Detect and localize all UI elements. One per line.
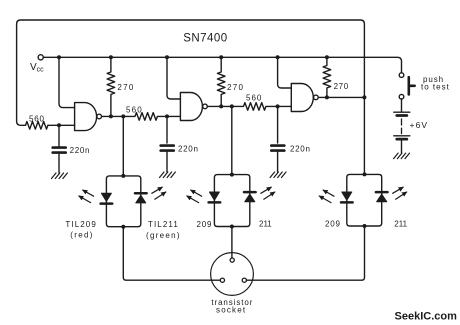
svg-text:TIL211: TIL211 (148, 220, 179, 229)
wire 560 to gate1 lower input (48, 124, 75, 126)
svg-text:(green): (green) (146, 231, 181, 240)
wire C3 to ground (277, 152, 279, 172)
light arrows pair2 left (187, 190, 202, 203)
wire gate1 output (102, 115, 124, 117)
wire gate3 lower input cap drop (277, 106, 279, 143)
node rail to R270 #1 (109, 55, 113, 59)
LED 209 pair3 left (342, 192, 352, 200)
node LED pair 2 bottom (230, 225, 234, 229)
resistor 270 R1 (107, 57, 115, 116)
node gate1 output to LED pair 1 (121, 114, 125, 118)
resistor 560 (gate1 out to gate2 in) (123, 113, 180, 121)
op-amp/NAND gate U1c (291, 84, 313, 112)
wire LED pair1 bottom to socket left pin (123, 227, 220, 281)
wire socket right pin to LED pair3 bottom (247, 226, 365, 280)
light arrows pair2 right (261, 187, 275, 199)
LED 211 pair3 right (376, 191, 388, 194)
wire gate2 lower input cap drop (166, 116, 168, 143)
wire battery to ground (401, 141, 403, 153)
svg-text:SN7400: SN7400 (183, 32, 227, 44)
op-amp/NAND gate U1b (180, 93, 202, 121)
LED TIL211 (green) pair1 right (135, 192, 147, 195)
ground C2 (160, 172, 176, 178)
svg-text:TIL209: TIL209 (65, 220, 97, 229)
svg-text:(red): (red) (70, 231, 93, 240)
svg-text:270: 270 (117, 83, 134, 92)
node R270 #3 bottom junction (325, 95, 329, 99)
wire push button to battery (401, 99, 403, 111)
light arrows pair3 right (393, 187, 407, 199)
svg-text:SeekIC.com: SeekIC.com (395, 310, 458, 322)
wire gate1 output down to LED pair 1 (122, 116, 124, 175)
node rail to gate3 upper input (276, 55, 280, 59)
resistor 270 R3 (323, 57, 331, 97)
node gate2 lower input junction (165, 114, 169, 118)
capacitor 220n C3 (271, 146, 284, 151)
push button (push to test) (399, 73, 404, 78)
light arrows pair1 left (79, 190, 94, 203)
node rail to gate2 upper input (165, 55, 169, 59)
LED pair 2 frame (214, 175, 249, 227)
wire LED pair2 bottom to socket top pin (231, 227, 233, 259)
node gate3 output feedback junction (362, 95, 366, 99)
node LED pair 1 bottom (121, 225, 125, 229)
wire gate2 upper input from rail (167, 57, 180, 99)
wire feedback loop: top border, left side, and right feedback down to LED pair 3 (17, 20, 365, 174)
node rail to gate1 upper input (57, 55, 61, 59)
svg-text:560: 560 (29, 114, 45, 123)
resistor 560 (gate2 out to gate3 in) (232, 103, 291, 111)
resistor 270 R2 (217, 57, 225, 106)
svg-text:220n: 220n (70, 146, 91, 155)
svg-text:209: 209 (325, 220, 341, 229)
ground C3 (270, 172, 286, 178)
svg-text:220n: 220n (178, 144, 199, 153)
wire C2 to ground (166, 152, 168, 172)
resistor 560 (feedback into gate 1 input) (26, 122, 48, 130)
capacitor 220n C1 (53, 148, 66, 153)
wire gate2 output down to LED pair 2 (231, 106, 233, 174)
node gate1 lower input junction (57, 123, 61, 127)
light arrows pair3 left (319, 190, 334, 203)
light arrows pair1 right (152, 187, 166, 199)
svg-text:+6V: +6V (410, 120, 429, 130)
svg-text:socket: socket (216, 305, 246, 314)
node R270 #2 bottom junction (219, 104, 223, 108)
wire gate3 output to feedback node (318, 96, 364, 98)
node gate2 output to LED pair 2 (230, 104, 234, 108)
wire gate3 upper input from rail (278, 57, 292, 88)
node LED pair 1 top (121, 174, 125, 178)
LED pair 3 frame (347, 174, 382, 226)
op-amp/NAND gate U1a (75, 103, 97, 131)
LED 209 pair2 left (209, 192, 219, 200)
ground battery (394, 153, 410, 159)
node LED pair 3 bottom (363, 224, 367, 228)
wire gate1 upper input from rail (59, 57, 75, 107)
wire gate1 lower input cap drop (58, 125, 60, 146)
ground C1 (52, 173, 68, 179)
svg-text:560: 560 (126, 106, 143, 115)
node rail to R270 #2 (219, 55, 223, 59)
node LED pair 3 top (363, 172, 367, 176)
svg-text:Vcc: Vcc (30, 62, 44, 73)
node gate3 lower input junction (276, 104, 280, 108)
svg-text:220n: 220n (290, 144, 311, 153)
LED TIL209 (red) pair1 left (101, 193, 111, 201)
node rail to R270 #3 (325, 55, 329, 59)
wire gate2 output (207, 105, 231, 107)
battery +6V (394, 112, 410, 139)
wire C1 to ground (58, 154, 60, 173)
capacitor 220n C2 (161, 146, 174, 151)
svg-text:560: 560 (246, 93, 262, 102)
Vcc terminal (38, 55, 43, 60)
node R270 #1 bottom junction (109, 114, 113, 118)
svg-text:270: 270 (227, 83, 244, 92)
svg-text:209: 209 (197, 220, 213, 229)
svg-text:270: 270 (334, 82, 349, 91)
LED pair 1 frame (106, 176, 140, 227)
wire Vcc supply rail to push button (43, 57, 401, 73)
transistor socket (211, 253, 254, 296)
LED 211 pair2 right (244, 191, 256, 194)
svg-text:211: 211 (259, 220, 272, 229)
node LED pair 2 top (230, 173, 234, 177)
svg-text:211: 211 (394, 219, 407, 228)
svg-text:to test: to test (421, 83, 450, 92)
